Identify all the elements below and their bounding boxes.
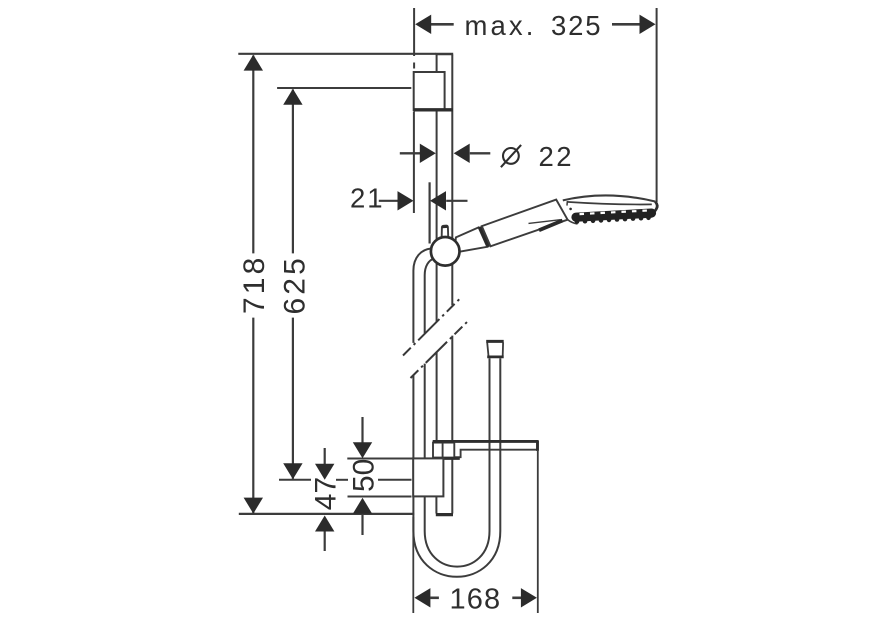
arrow 47 bottom (315, 516, 334, 532)
arrow max.325 right (640, 15, 656, 34)
handle select button (bold) (539, 221, 563, 231)
svg-text:21: 21 (350, 183, 385, 214)
extension line holder top y458.5 (347, 458, 413, 460)
holder circle on bar (431, 237, 460, 266)
arrow 718 bottom (244, 498, 263, 514)
extension line bottom of bar y514 (239, 513, 414, 515)
arrow 168 right (521, 588, 537, 607)
arrow 168 left (414, 588, 430, 607)
arrow 50 bottom (353, 498, 372, 514)
extension line right for max.325 (656, 8, 658, 202)
arrow 50 top (353, 442, 372, 458)
shower bar right edge (451, 55, 453, 514)
svg-text:168: 168 (450, 584, 502, 616)
svg-text:325: 325 (551, 10, 602, 41)
diameter symbol (501, 145, 521, 167)
bar slider at shelf (433, 443, 454, 458)
shelf / soap dish (455, 450, 538, 458)
hand shower: connector band (480, 227, 489, 247)
dimension line max.325 (431, 23, 640, 26)
arrow 21 right (430, 191, 446, 210)
dimension 50 vertical line (361, 417, 363, 535)
head neck tick and dot (566, 201, 568, 205)
arrow max.325 left (415, 15, 431, 34)
nozzle bumps (575, 216, 651, 224)
bar bottom cap (436, 513, 453, 516)
break mark diagonals (403, 297, 469, 378)
dimension line 168 tails (430, 596, 521, 599)
extension line holder bottom y496.5 (348, 496, 412, 498)
dimension line 718 vertical (252, 56, 254, 514)
shower head rim top (563, 195, 655, 201)
hose end fitting (486, 341, 504, 357)
spray nozzle band (dark) (576, 213, 652, 217)
extension line y479.8 (bottom of 625) (279, 479, 412, 481)
nozzle band white dashes (580, 210, 650, 214)
arrow 625 bottom (283, 463, 302, 479)
svg-text:max.: max. (465, 10, 537, 41)
dimension 168 extension lines (413, 451, 538, 613)
hand shower: cone from holder (455, 227, 488, 252)
svg-text:50: 50 (348, 459, 381, 492)
dimension line 625 vertical (292, 90, 294, 479)
extension line bracket centre y88 (277, 87, 411, 89)
arrow 21 left (398, 191, 414, 210)
handle inner line (529, 220, 561, 224)
wall bracket top (414, 72, 445, 110)
arrowheads (244, 15, 656, 608)
lower wall bracket square (413, 458, 443, 496)
svg-text:47: 47 (309, 477, 342, 510)
arrow 718 top (244, 55, 263, 71)
extension line top of bar y54 (238, 53, 436, 55)
holder pin knob (442, 226, 449, 246)
shower head right cap (651, 202, 658, 214)
svg-text:22: 22 (539, 141, 575, 172)
bar top cap (436, 53, 454, 55)
extension line left (wall) for max.325 and 21 (413, 8, 415, 213)
hand shower: handle body (482, 200, 568, 247)
shower bar left edge (435, 55, 437, 514)
hose left inner edge (425, 258, 435, 333)
svg-text:625: 625 (278, 255, 311, 314)
dimension 47 vertical line (324, 448, 326, 551)
arrow 625 top (283, 89, 302, 105)
hose left outer edge (413, 249, 431, 343)
arrow 47 top (315, 464, 334, 480)
head underside curve (567, 220, 577, 224)
svg-text:718: 718 (238, 255, 271, 314)
shower head rim inner (567, 202, 652, 205)
arrow dia22 left (420, 144, 436, 163)
arrow dia22 right (454, 144, 470, 163)
dimension diameter 22 tails (400, 152, 491, 154)
dimension 21: tail and extension (379, 182, 468, 243)
